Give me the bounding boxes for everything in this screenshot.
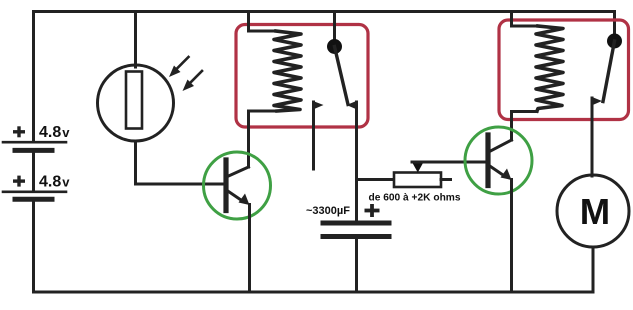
relay RL2 contact <box>592 97 603 176</box>
relay RL2 switch blade <box>603 41 615 102</box>
relay RL1 coil lead from top rail <box>249 12 276 32</box>
wire: top rail down to photoresistor <box>134 12 137 68</box>
svg-text:de 600 à +2K ohms: de 600 à +2K ohms <box>369 193 461 204</box>
battery B2 4.8v <box>3 174 70 200</box>
svg-text:4.8v: 4.8v <box>39 174 70 191</box>
wire: top rail down to relay RL1 switch pivot <box>333 12 336 45</box>
potentiometer P1 body <box>394 173 441 188</box>
relay RL1 coil bottom lead, down to Q1 collector <box>249 111 278 167</box>
battery B1 4.8v <box>3 124 70 150</box>
wire: Q2 emitter to bottom rail <box>510 180 513 293</box>
relay RL1 switch pivot <box>327 39 342 54</box>
svg-text:4.8v: 4.8v <box>39 124 70 141</box>
relay RL1 switch blade <box>335 47 349 105</box>
relay RL2 coil <box>536 26 563 111</box>
transistor Q2 <box>465 127 532 194</box>
photoresistor LDR <box>98 65 174 141</box>
wire: RL1 NO contact down to capacitor / potentiometer junction <box>355 179 358 221</box>
motor M1 <box>557 175 629 247</box>
relay RL2 coil lead from top rail <box>512 12 538 27</box>
potentiometer P1 wiper <box>413 163 424 173</box>
wire: bottom ground rail <box>34 291 594 294</box>
wire: junction to potentiometer left lead <box>357 178 395 181</box>
relay RL1 coil <box>274 31 301 111</box>
potentiometer P1 right stub <box>441 178 451 181</box>
relay RL2 box <box>499 20 629 120</box>
wire: between battery cells <box>32 152 35 191</box>
wire: battery B2 to bottom rail <box>32 201 35 292</box>
wire: capacitor C1 to bottom rail <box>355 239 358 292</box>
capacitor C1 polarity + <box>365 209 380 213</box>
svg-text:~3300µF: ~3300µF <box>306 205 350 217</box>
wire: LDR bottom, to transistor Q1 base <box>136 141 224 184</box>
wire: P1 wiper to Q2 base <box>412 161 486 164</box>
capacitor C1 plates <box>323 223 389 237</box>
transistor Q1 <box>204 152 271 219</box>
wire: motor M1 to bottom rail <box>592 247 595 292</box>
relay RL1 NC contact (unused stub) <box>313 101 324 169</box>
relay RL2 switch pivot <box>607 34 622 49</box>
svg-text:M: M <box>580 191 610 232</box>
relay RL1 NO contact <box>347 101 358 179</box>
relay RL1 box <box>236 25 368 128</box>
relay RL2 coil bottom lead, down to Q2 collector <box>512 112 538 141</box>
wire: top supply rail <box>34 12 615 37</box>
wire: Q1 emitter to bottom rail <box>248 205 251 293</box>
light arrows into LDR <box>169 57 202 91</box>
wire: left battery branch (top rail to battery B1) <box>32 12 35 143</box>
